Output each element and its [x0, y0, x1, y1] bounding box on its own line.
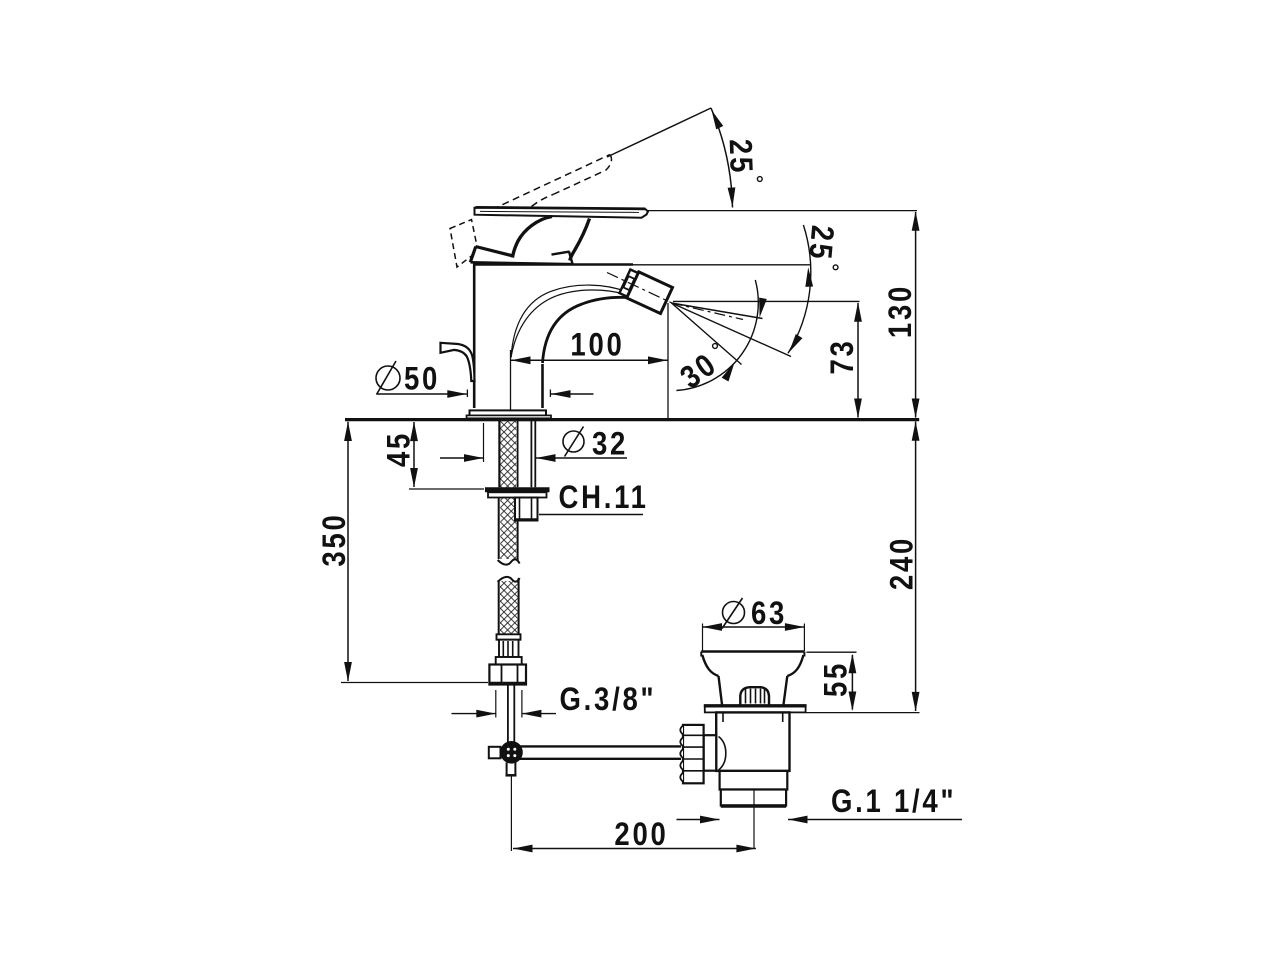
- drain flare top rim: [701, 652, 804, 657]
- svg-text:G.1 1/4": G.1 1/4": [831, 784, 956, 819]
- spout inner thin curves: [511, 285, 626, 357]
- hose end ribbed collar: [499, 640, 519, 657]
- pop-up rod knob on body left: [441, 343, 475, 381]
- dimension dia 50 base: [376, 361, 594, 398]
- svg-text:200: 200: [614, 817, 668, 852]
- svg-text:45: 45: [381, 431, 416, 467]
- drain body: [716, 712, 789, 771]
- spout outer curve: [543, 297, 630, 363]
- dimension 55 drain height: [807, 652, 920, 712]
- hose hex nut G38: [489, 665, 526, 685]
- dimension 45 deck thickness: [381, 422, 484, 489]
- handle base cap: [470, 247, 573, 265]
- svg-text:CH.11: CH.11: [558, 480, 648, 515]
- svg-text:G.3/8": G.3/8": [560, 682, 657, 717]
- svg-text:50: 50: [404, 362, 440, 397]
- linkage rod lower stub: [506, 763, 517, 852]
- spray line lower: [672, 303, 742, 365]
- arc 30deg spray fan: [676, 280, 766, 391]
- svg-text:73: 73: [825, 338, 860, 374]
- flexible hose lower braided section: [498, 577, 520, 634]
- svg-text:25: 25: [802, 224, 840, 263]
- arc 25deg handle swing: [708, 108, 736, 208]
- handle neck curves: [513, 217, 590, 261]
- svg-text:100: 100: [570, 327, 624, 362]
- dimension 200 rod to drain: [513, 817, 756, 852]
- drain tee collar: [704, 735, 717, 771]
- handle lever raised dashed outline: [450, 155, 612, 268]
- supply pipe tail: [508, 685, 514, 743]
- reference line handle top extended: [640, 210, 917, 212]
- dimension 350 hose length: [317, 422, 488, 683]
- dimension 240 depth: [884, 421, 919, 711]
- faucet body outline: [473, 265, 633, 409]
- spray line upper: [672, 303, 763, 319]
- label CH.11 with leader: [539, 480, 649, 515]
- label 25deg handle: [722, 138, 762, 181]
- svg-text:350: 350: [317, 512, 352, 566]
- hose walls below washer: [499, 498, 518, 562]
- drain tailpiece: [720, 771, 788, 790]
- aerator axis dash-dot centerline: [607, 273, 673, 304]
- dimension 130 height: [883, 211, 920, 418]
- handle lever blade: [475, 207, 649, 218]
- countertop / mounting surface line: [345, 418, 919, 421]
- dimension 73 spout height: [825, 302, 862, 418]
- dimension G.3/8 thread: [452, 682, 657, 717]
- reference line body top extended: [633, 264, 810, 266]
- mounting hex nut CH11: [515, 498, 538, 521]
- horizontal linkage rod: [519, 746, 681, 758]
- mounting washer: [485, 490, 550, 498]
- hose ferrule: [497, 634, 521, 639]
- drain funnel curves: [702, 655, 803, 705]
- aerator nozzle tilted: [619, 268, 673, 313]
- svg-text:25: 25: [722, 138, 759, 175]
- dimension 100 spout reach: [510, 303, 668, 418]
- base plate: [467, 410, 552, 419]
- hose end band: [496, 657, 522, 665]
- svg-text:55: 55: [818, 661, 853, 697]
- label 30deg spray fan: [674, 344, 724, 396]
- svg-text:240: 240: [884, 536, 919, 590]
- spray line middle: [672, 303, 792, 357]
- svg-text:63: 63: [751, 596, 787, 631]
- pop-up linkage ball joint: [489, 741, 523, 764]
- spray centerline dash-dot: [672, 303, 744, 320]
- dimension G.1 1/4 drain thread: [677, 784, 963, 823]
- drain flange: [704, 706, 807, 713]
- drain threaded tail G114: [721, 790, 786, 849]
- label 25deg spray: [802, 224, 840, 270]
- dimension dia 32 shank: [440, 423, 628, 462]
- svg-text:32: 32: [592, 426, 628, 461]
- drain pop-up knob: [740, 687, 769, 704]
- flexible hose upper braided section: [498, 419, 520, 565]
- reference line spout height 73: [673, 300, 860, 302]
- mounting shank walls: [499, 419, 535, 487]
- drain knurled coupling nut: [680, 725, 703, 783]
- svg-text:130: 130: [883, 284, 918, 338]
- arc 25deg spray angle: [785, 225, 813, 355]
- dimension line 25deg handle ray: [607, 108, 711, 157]
- dimension dia 63 drain flare: [703, 596, 805, 651]
